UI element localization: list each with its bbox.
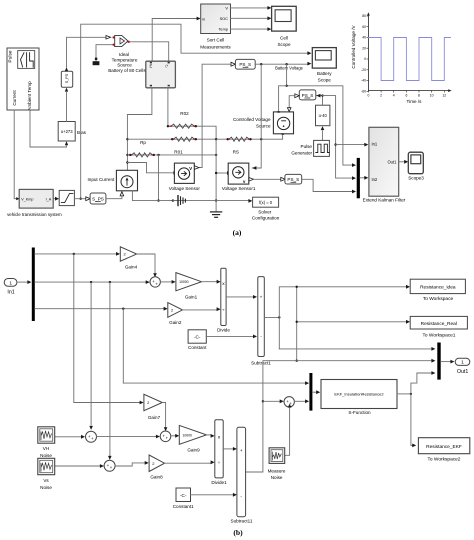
svg-text:Vs: Vs xyxy=(43,478,49,483)
wire Divide1 to Subtract1 xyxy=(223,448,234,450)
svg-text:m: m xyxy=(202,17,205,21)
block To Workspace1 (Resistance_Real) xyxy=(410,316,467,338)
sum junction (Gain4/wire2) xyxy=(150,277,160,287)
wire Constant to Subtract xyxy=(206,335,254,337)
wire rail to Gain7 xyxy=(74,254,141,403)
mux (Out1) xyxy=(437,343,440,380)
source VH Noise xyxy=(38,427,55,458)
resistor Rp xyxy=(127,138,282,140)
mux (EKF inputs) xyxy=(357,158,360,198)
svg-text:Gain8: Gain8 xyxy=(150,475,163,480)
svg-text:Divide1: Divide1 xyxy=(211,480,227,485)
svg-text:Gain1: Gain1 xyxy=(185,295,198,300)
svg-text:Current: Current xyxy=(12,90,17,106)
svg-text:-C-: -C- xyxy=(194,335,201,340)
wire Voltage Sensor output to PS_S xyxy=(200,64,231,167)
wire saturation to S-PS converter xyxy=(74,198,85,200)
svg-text:V: V xyxy=(189,166,192,171)
svg-text:Solver: Solver xyxy=(258,210,271,215)
svg-text:Measure: Measure xyxy=(268,468,286,473)
wire Gain2 to Divide xyxy=(183,309,218,311)
svg-text:-40: -40 xyxy=(361,79,366,83)
svg-text:SOC: SOC xyxy=(220,16,229,21)
output port Out1 xyxy=(455,358,470,375)
wire Ambient Temp to Bias xyxy=(30,110,67,147)
block To Workspace2 (Resistance_EKF) xyxy=(418,438,469,463)
resistor R02 xyxy=(168,126,216,139)
wire Sort Cell out 1 xyxy=(231,7,268,9)
svg-text:Controlled Voltage /V: Controlled Voltage /V xyxy=(351,24,356,68)
wire battery-voltage node to VS1 right port xyxy=(252,64,261,168)
wire rail to small mux in1 xyxy=(123,382,306,384)
gain Gain8 xyxy=(149,455,164,480)
svg-text:Noise: Noise xyxy=(271,475,283,480)
converter PS_S2 (to controlled voltage source) xyxy=(299,90,316,100)
svg-text:÷: ÷ xyxy=(218,461,221,466)
svg-text:Source: Source xyxy=(256,123,271,128)
wire branch to controlled voltage source left port xyxy=(279,86,287,112)
svg-text:Constant: Constant xyxy=(188,345,207,350)
svg-text:Scope3: Scope3 xyxy=(408,176,424,181)
svg-text:Source: Source xyxy=(117,63,132,68)
wire demux out1 to Gain4 xyxy=(35,253,117,255)
block u-40 xyxy=(316,105,330,126)
plot axes (Controlled Voltage vs Time) xyxy=(351,12,452,104)
svg-text:Battery: Battery xyxy=(317,71,332,76)
svg-text:1: 1 xyxy=(9,280,12,286)
wire battery bottom-right to R02 xyxy=(167,88,169,126)
wire mux to Out1 xyxy=(441,361,451,363)
block Constant xyxy=(188,330,207,350)
svg-text:vehicle transmission system: vehicle transmission system xyxy=(7,212,62,217)
svg-text:Measurements: Measurements xyxy=(200,44,231,49)
electrical reference (earth ground) xyxy=(211,201,222,218)
wire PS_S3 to EKF mux in3 xyxy=(302,179,353,191)
svg-text:S_PS: S_PS xyxy=(65,73,69,83)
gain Gain4 xyxy=(120,247,137,270)
wire Current port down xyxy=(14,110,19,199)
wire demux out3 to Gain2 xyxy=(35,308,165,310)
subsystem block Pulse (Current / Ambient Temp source) xyxy=(7,48,39,111)
wire u-40 node to EKF In1 and mux in2 xyxy=(323,96,354,179)
wire node rail xyxy=(158,155,160,201)
wire Vs Noise to sum xyxy=(55,465,101,467)
svg-text:Controlled Voltage: Controlled Voltage xyxy=(233,117,271,122)
gain Gain7 xyxy=(144,394,162,420)
svg-text:Gain2: Gain2 xyxy=(169,320,182,325)
svg-text:(b): (b) xyxy=(233,528,243,537)
source Vs Noise xyxy=(38,458,55,490)
battery of 80 cells block xyxy=(146,61,176,88)
wire Gain1 to Divide xyxy=(202,281,218,283)
wire Vs sum to Gain8 xyxy=(115,463,145,466)
wire to measurement sum xyxy=(263,400,281,402)
voltage sensor 1 (Voltage Sensor1) xyxy=(222,163,256,191)
svg-text:Temperature: Temperature xyxy=(112,57,138,62)
svg-text:Time /s: Time /s xyxy=(407,99,423,104)
svg-text:Gain7: Gain7 xyxy=(148,415,161,420)
demux bar xyxy=(32,248,35,322)
wire input-current rail to Battery Scope in1 xyxy=(81,24,308,199)
svg-text:Constant1: Constant1 xyxy=(173,504,194,509)
wire sum to small mux xyxy=(294,400,306,402)
wire rail to VH sum xyxy=(90,282,92,425)
svg-text:Out1: Out1 xyxy=(457,369,468,375)
wire Voltage Sensor1 output to PS_S3 xyxy=(254,178,281,180)
svg-text:PS_S: PS_S xyxy=(287,177,299,182)
ground (reference) xyxy=(173,196,186,206)
wire Subtract1 output rail xyxy=(246,361,432,472)
block Divide1 xyxy=(211,420,227,485)
converter S-PS (input current) xyxy=(90,193,106,204)
wire battery bottom-left to left rail xyxy=(127,88,151,170)
block Pulse Generator xyxy=(291,140,329,156)
svg-text:60: 60 xyxy=(362,25,366,29)
svg-text:Scope: Scope xyxy=(277,42,290,47)
voltage sensor (Voltage Sensor) xyxy=(169,163,201,191)
wire CVS bottom port to RS row xyxy=(282,135,284,139)
svg-text:2: 2 xyxy=(380,94,382,98)
svg-text:0: 0 xyxy=(367,94,369,98)
svg-text:Input Current: Input Current xyxy=(87,177,115,182)
svg-text:Gain9: Gain9 xyxy=(187,447,200,452)
svg-text:RS: RS xyxy=(233,149,239,154)
svg-text:Extend Kalman Filter: Extend Kalman Filter xyxy=(363,198,406,203)
wire mux out to EKF In2 xyxy=(360,177,365,179)
svg-text:EKF_InsulationResistance2: EKF_InsulationResistance2 xyxy=(334,392,384,397)
block To Workspace (Resistance_idea) xyxy=(410,279,465,302)
svg-text:S_PS: S_PS xyxy=(92,196,104,201)
svg-text:(+: (+ xyxy=(166,64,169,68)
svg-text:4: 4 xyxy=(393,94,395,98)
source Measure Noise xyxy=(268,448,286,480)
wire Measure Noise to sum xyxy=(285,408,290,455)
svg-text:Ideal: Ideal xyxy=(119,52,129,57)
block u+273 Bias xyxy=(58,122,86,142)
svg-text:Scope: Scope xyxy=(318,78,331,83)
wire Gain4 to Sum xyxy=(137,254,155,274)
scope Scope3 xyxy=(408,152,424,180)
wire VH Noise to sum xyxy=(55,436,82,438)
svg-text:Temp: Temp xyxy=(218,27,228,32)
svg-text:Voltage Sensor: Voltage Sensor xyxy=(169,186,201,191)
saturation block xyxy=(59,190,74,205)
svg-text:S-Function: S-Function xyxy=(348,410,371,415)
svg-text:V: V xyxy=(225,6,228,11)
block Divide xyxy=(217,268,230,332)
wire rail to Voltage Sensor1 and ground xyxy=(215,139,217,200)
svg-text:80: 80 xyxy=(362,14,366,18)
wire battery-voltage branch to EKF mux in1 xyxy=(287,64,353,165)
controlled voltage source xyxy=(233,111,294,135)
wire current source output to ground row xyxy=(132,191,249,201)
svg-text:In1: In1 xyxy=(372,141,378,146)
svg-text:Subtract11: Subtract11 xyxy=(231,519,253,524)
converter PS_S3 xyxy=(285,174,302,184)
block Subtract1 xyxy=(231,427,253,523)
wire PS_S2 to CVS signal input xyxy=(295,94,299,98)
svg-text:10: 10 xyxy=(430,94,434,98)
svg-text:Configuration: Configuration xyxy=(252,216,280,221)
resistor R01 xyxy=(127,154,216,156)
wire S-PS to current source signal input xyxy=(106,196,122,199)
svg-text:-60: -60 xyxy=(361,90,366,94)
wire Subtract output net xyxy=(264,316,279,318)
converter S-PS (vertical) xyxy=(61,71,72,87)
svg-text:Noise: Noise xyxy=(40,485,52,490)
svg-text:-C-: -C- xyxy=(180,493,187,498)
wire PS_S to Battery Scope in2 / Battery Voltage net xyxy=(255,63,307,65)
subsystem Extend Kalman Filter xyxy=(363,127,406,202)
svg-text:(a): (a) xyxy=(233,228,242,237)
svg-text:u+273: u+273 xyxy=(61,129,73,134)
svg-text:0: 0 xyxy=(364,57,366,61)
svg-text:6: 6 xyxy=(405,94,407,98)
svg-text:Resistance_Real: Resistance_Real xyxy=(421,321,457,327)
block Solver Configuration f(x)=0 xyxy=(252,197,280,221)
svg-text:12: 12 xyxy=(442,94,446,98)
input port In1 xyxy=(4,279,17,296)
svg-text:To Workspace: To Workspace xyxy=(423,296,454,302)
sum junction (measure noise) xyxy=(284,397,294,407)
svg-text:R01: R01 xyxy=(174,149,183,154)
wire Gain8 to Divide1 xyxy=(165,462,212,464)
wire VH sum to second sum xyxy=(97,436,157,438)
block S-Function EKF_InsulationResistance2 xyxy=(321,380,397,415)
converter PS_S (battery voltage) xyxy=(235,59,255,69)
current source (controlled) xyxy=(87,170,137,191)
svg-text:PS_S: PS_S xyxy=(239,62,251,67)
svg-text:Gain4: Gain4 xyxy=(125,265,138,270)
wire S-Function output xyxy=(397,393,411,395)
svg-text:8: 8 xyxy=(418,94,420,98)
wire Gain7 to sum xyxy=(162,403,165,428)
wire vts to saturation xyxy=(53,198,56,200)
svg-text:÷: ÷ xyxy=(222,308,225,313)
svg-text:u-40: u-40 xyxy=(319,113,328,118)
plot square wave xyxy=(368,38,450,81)
svg-text:E: E xyxy=(150,64,153,69)
svg-text:40: 40 xyxy=(362,36,366,40)
wire Gain9 to Divide1 xyxy=(207,434,212,436)
svg-text:Pulse: Pulse xyxy=(8,50,14,63)
wire Pulse Generator to u-40 xyxy=(322,131,324,140)
svg-text:VH: VH xyxy=(43,446,49,451)
svg-text:f(x) = 0: f(x) = 0 xyxy=(259,200,273,205)
svg-text:Cell: Cell xyxy=(280,35,288,40)
svg-text:Pulse: Pulse xyxy=(301,144,313,149)
svg-text:Voltage Sensor1: Voltage Sensor1 xyxy=(222,186,256,191)
gain Gain1 xyxy=(176,273,202,300)
wire mux to S-Function xyxy=(312,391,317,393)
svg-text:Generator: Generator xyxy=(291,150,312,155)
svg-text:To Workspace2: To Workspace2 xyxy=(428,457,461,463)
ideal temperature source xyxy=(108,35,146,73)
svg-text:Out1: Out1 xyxy=(388,159,398,164)
wire battery V to Sort Cell xyxy=(152,19,197,62)
svg-text:To Workspace1: To Workspace1 xyxy=(423,332,456,338)
svg-text:+: + xyxy=(240,449,243,454)
svg-text:Battery Voltage: Battery Voltage xyxy=(275,66,303,71)
wire In1 to demux xyxy=(17,281,28,283)
sum junction (Gain7) xyxy=(160,431,171,442)
svg-text:In2: In2 xyxy=(372,177,378,182)
thermal reference ground xyxy=(93,45,113,65)
block Sort Cell Measurements xyxy=(200,4,231,49)
svg-text:Resistance_idea: Resistance_idea xyxy=(420,285,456,291)
wire temperature source to battery xyxy=(130,42,169,61)
svg-text:Resistance_EKF: Resistance_EKF xyxy=(426,444,462,450)
wire S-PS to temperature source xyxy=(67,37,107,67)
wire u-40 output node xyxy=(316,96,322,106)
gain Gain2 xyxy=(168,303,183,325)
wire Sort Cell out 3 xyxy=(231,28,268,30)
sum junction (Vs) xyxy=(104,460,115,471)
resistor RS xyxy=(228,137,251,141)
wire rail to mux row xyxy=(122,309,124,383)
svg-text:Bias: Bias xyxy=(77,130,87,135)
wire Sum to Gain1 xyxy=(160,281,172,283)
wire demux out2 to Sum xyxy=(35,281,147,283)
svg-text:Sort Cell: Sort Cell xyxy=(207,37,225,42)
svg-text:R02: R02 xyxy=(180,111,189,116)
wire Constant1 to Subtract1 xyxy=(191,494,234,496)
svg-text:1: 1 xyxy=(461,360,464,366)
svg-text:Ambient Temp: Ambient Temp xyxy=(27,81,32,111)
wire sum to Gain9 xyxy=(171,435,176,437)
block Constant1 xyxy=(173,488,194,509)
svg-text:I_A: I_A xyxy=(46,198,52,202)
block Subtract xyxy=(251,277,271,366)
gain Gain9 xyxy=(179,425,206,452)
svg-text:PS_S: PS_S xyxy=(302,93,314,98)
svg-text:V_Kmp: V_Kmp xyxy=(21,198,33,202)
svg-text:In1: In1 xyxy=(7,290,14,296)
svg-text:-20: -20 xyxy=(361,68,366,72)
wire to Voltage Sensor left port xyxy=(127,163,173,173)
wire rail to Vs sum xyxy=(109,282,111,455)
wire EKF Out1 to Scope3 xyxy=(399,161,405,163)
scope Cell Scope xyxy=(272,6,297,47)
svg-text:Subtract1: Subtract1 xyxy=(251,361,271,366)
subsystem vehicle transmission system xyxy=(7,189,62,217)
wire branch to Resistance_Real and mux xyxy=(296,287,298,361)
scope Battery Scope xyxy=(312,48,336,83)
svg-text:10000: 10000 xyxy=(183,433,193,437)
wire Sort Cell out 2 xyxy=(231,17,268,19)
svg-text:Rp: Rp xyxy=(140,140,146,145)
svg-text:20: 20 xyxy=(362,46,366,50)
svg-text:+: + xyxy=(260,296,263,301)
svg-text:Battery of 80 Cells: Battery of 80 Cells xyxy=(108,68,146,73)
wire Divide to Subtract xyxy=(226,296,254,298)
sum junction (VH) xyxy=(86,431,97,442)
wire Bias to S-PS xyxy=(66,93,68,122)
svg-text:10000: 10000 xyxy=(179,280,189,284)
svg-text:Noise: Noise xyxy=(40,453,52,458)
svg-text:Divide: Divide xyxy=(217,328,230,333)
mux (S-Function inputs) xyxy=(309,373,312,411)
